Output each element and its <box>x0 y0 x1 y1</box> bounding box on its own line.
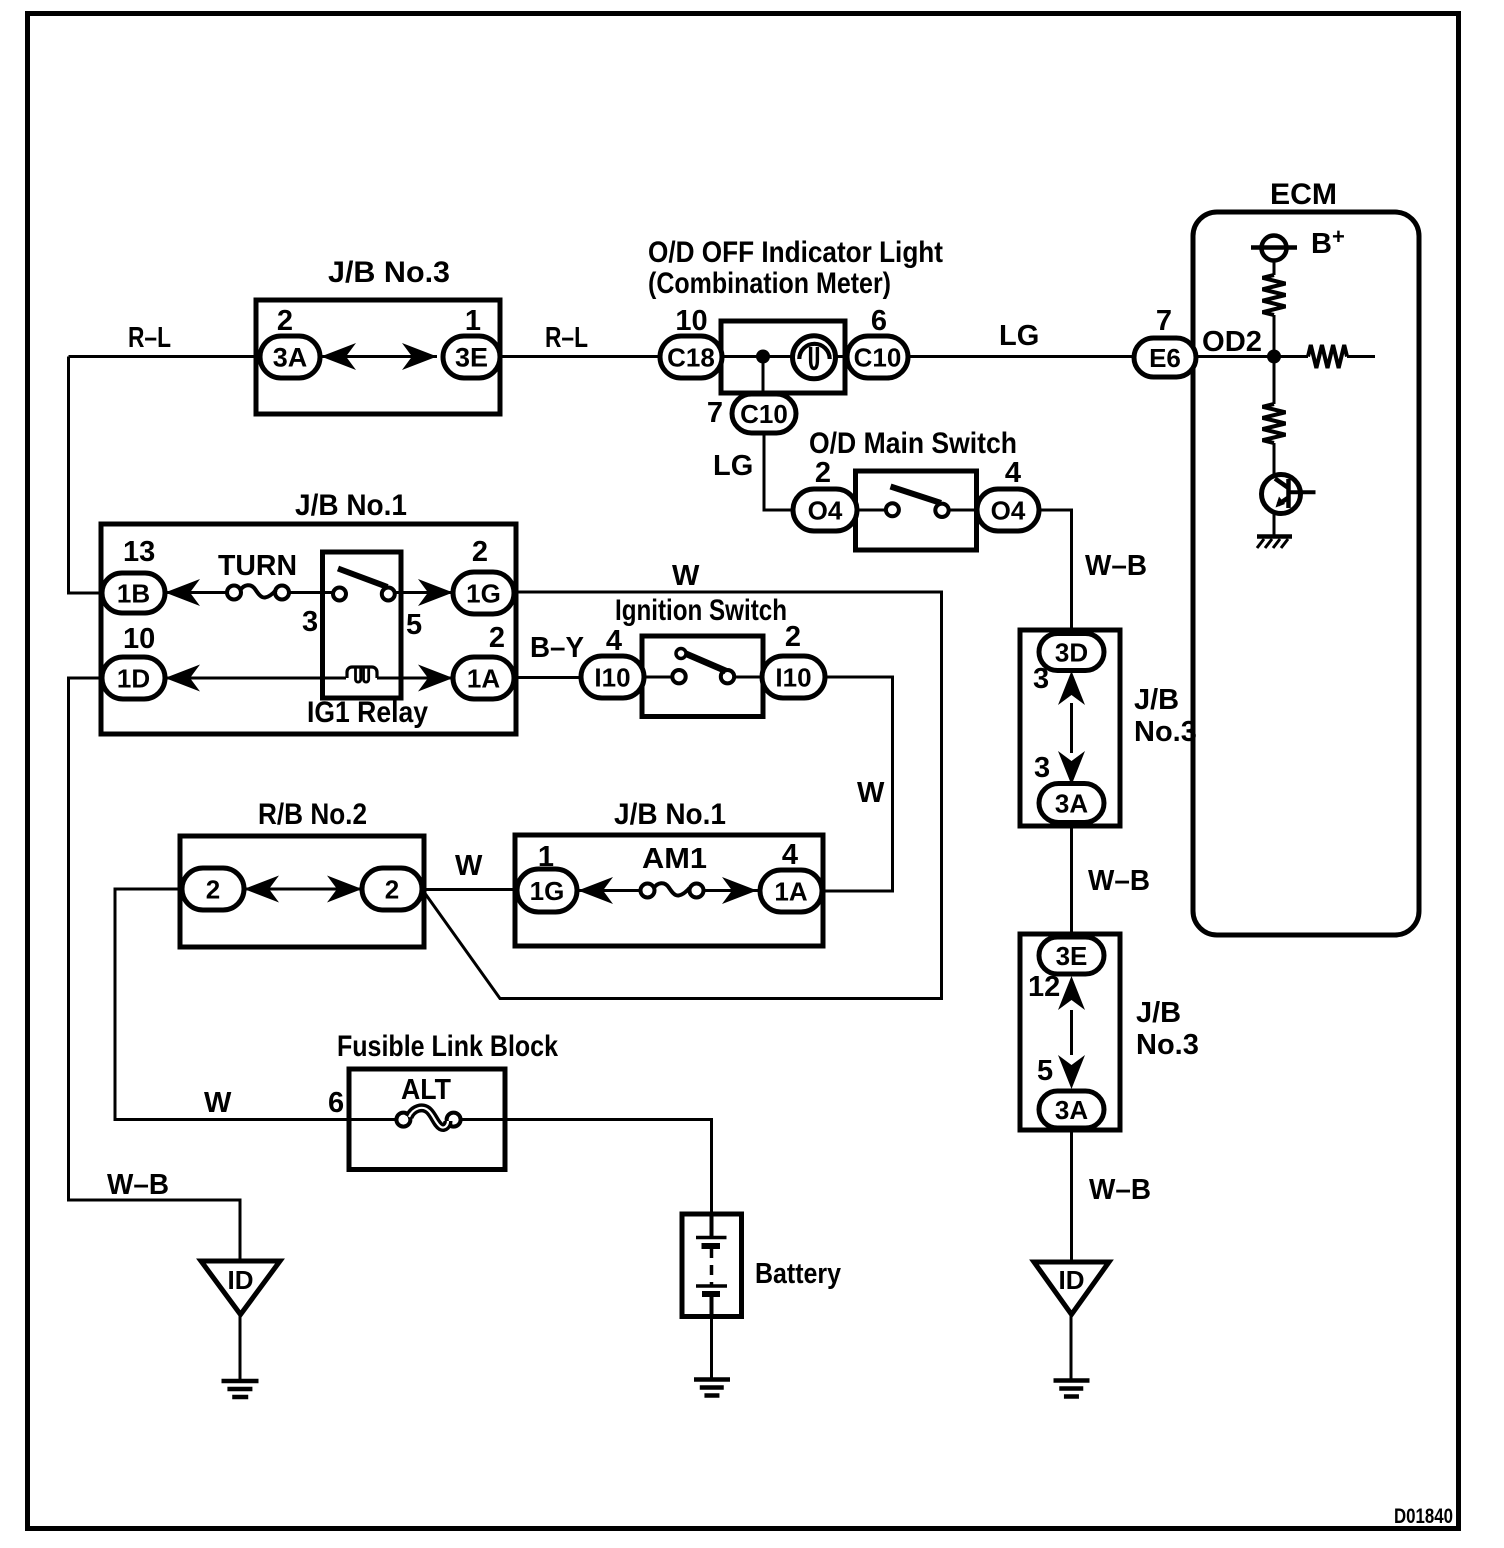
ignition switch contacts and lever <box>672 649 734 684</box>
connector I10 (pin 2) <box>762 656 825 698</box>
ECM block <box>1193 212 1419 935</box>
label LG (left) <box>713 450 753 482</box>
svg-text:4: 4 <box>1005 457 1021 489</box>
chassis ground (ECM) <box>1257 537 1292 549</box>
svg-text:2: 2 <box>815 457 831 489</box>
label W-B (upper right) <box>1085 550 1147 582</box>
svg-text:13: 13 <box>123 536 155 568</box>
label AM1 <box>642 843 707 875</box>
svg-text:Fusible Link Block: Fusible Link Block <box>337 1030 558 1063</box>
connector C10 (pin 7) <box>732 394 796 433</box>
connector 3A (upper vertical) <box>1039 784 1104 823</box>
wire R-L left segment <box>69 355 261 358</box>
wire relay to 1G <box>395 591 453 594</box>
wire battery to ground <box>710 1317 713 1379</box>
pin 4 of O4 <box>1005 457 1021 489</box>
wire W 2 to 1G <box>422 888 517 891</box>
pin 5 of 3A (lower) <box>1037 1055 1053 1087</box>
connector 3E (lower vertical) <box>1039 937 1104 974</box>
wire emitter to ground <box>1273 514 1276 537</box>
wire ALT link stub left <box>349 1118 397 1121</box>
wire between 3A and 3E <box>321 355 437 358</box>
ground (right ID) <box>1054 1381 1090 1397</box>
junction block J/B No.1 <box>101 524 516 734</box>
connector arrow at 1G (AM1) <box>578 877 613 904</box>
label O/D Main Switch <box>809 427 1017 460</box>
pin 3 of 3D <box>1033 663 1049 695</box>
wire O4 to switch contact <box>857 509 886 512</box>
B+ terminal <box>1251 236 1297 261</box>
connector arrow left (3A) <box>321 343 356 370</box>
connector 3A (lower vertical) <box>1039 1091 1104 1128</box>
svg-text:2: 2 <box>489 622 505 654</box>
label Fusible Link Block <box>337 1030 558 1063</box>
svg-text:ECM: ECM <box>1270 178 1337 211</box>
label J/B No.3 (top) <box>328 256 450 289</box>
svg-text:J/B No.3: J/B No.3 <box>328 256 450 289</box>
svg-text:6: 6 <box>871 305 887 337</box>
svg-text:I10: I10 <box>594 662 630 692</box>
label W-B (lower right) <box>1089 1174 1151 1206</box>
svg-text:5: 5 <box>1037 1055 1053 1087</box>
svg-text:1G: 1G <box>530 876 565 906</box>
connector 1D <box>102 657 165 699</box>
pin 2 of 1A <box>489 622 505 654</box>
wire W-B 3A to ID right <box>1070 1128 1073 1262</box>
connector 1A <box>453 657 514 699</box>
label OD2 <box>1202 326 1262 358</box>
label J/B No.1 (AM1 block) <box>614 798 726 831</box>
svg-text:7: 7 <box>707 397 723 429</box>
svg-text:Ignition Switch: Ignition Switch <box>615 594 787 627</box>
junction block J/B No.3 (upper vertical) <box>1020 630 1120 826</box>
label R-L (middle) <box>545 322 588 354</box>
svg-text:3A: 3A <box>1055 788 1088 818</box>
svg-text:3E: 3E <box>455 343 488 373</box>
connector arrow up (3D) <box>1058 671 1085 705</box>
connector O4 (pin 2) <box>793 489 857 531</box>
svg-text:10: 10 <box>675 305 707 337</box>
svg-text:ALT: ALT <box>401 1074 451 1106</box>
svg-text:10: 10 <box>123 623 155 655</box>
svg-text:1D: 1D <box>117 663 150 693</box>
wire left vertical R-L to 1B <box>69 357 103 594</box>
label IG1 Relay <box>307 696 428 729</box>
svg-text:J/B: J/B <box>1136 997 1181 1029</box>
pin 7 of C10 lower <box>707 397 723 429</box>
svg-text:1B: 1B <box>117 578 150 608</box>
label W (to ALT) <box>204 1087 232 1119</box>
pin 3 of 3A (upper) <box>1034 752 1050 784</box>
svg-text:6: 6 <box>328 1087 344 1119</box>
svg-text:4: 4 <box>606 625 622 657</box>
svg-text:2: 2 <box>785 621 801 653</box>
connector O4 (pin 4) <box>977 489 1039 531</box>
wire W-B from O4 <box>1039 510 1072 634</box>
pin 5 of relay <box>406 609 422 641</box>
pin 2 of I10 <box>785 621 801 653</box>
resistor R2 (series) <box>1308 345 1347 368</box>
svg-text:(Combination Meter): (Combination Meter) <box>648 267 891 300</box>
ground point ID (right) <box>1034 1262 1109 1315</box>
label W (mid right) <box>857 777 885 809</box>
wire R-L middle segment <box>500 355 660 358</box>
wire W-B 3A to 3E <box>1070 822 1073 937</box>
pin 6 of ALT <box>328 1087 344 1119</box>
svg-text:R–L: R–L <box>128 322 171 354</box>
svg-text:J/B No.1: J/B No.1 <box>614 798 726 831</box>
connector 1A (AM1 block) <box>760 870 822 912</box>
wire switch contact to O4 <box>948 509 977 512</box>
svg-text:Battery: Battery <box>755 1258 841 1290</box>
connector arrow at 1B <box>165 579 200 606</box>
label TURN <box>218 550 297 582</box>
label J/B No.3 (upper) line1 <box>1134 684 1179 716</box>
wire LG to ECM <box>908 355 1134 358</box>
svg-text:W: W <box>672 560 700 592</box>
label Battery <box>755 1258 841 1290</box>
connector 3D <box>1039 634 1104 671</box>
connector 1B <box>102 573 165 613</box>
connector arrow at 1A <box>418 665 453 692</box>
label J/B No.1 (relay block) <box>295 489 407 522</box>
connector 1G (AM1 block) <box>517 869 577 912</box>
IG1 relay switch contacts and lever <box>333 569 395 601</box>
svg-text:3D: 3D <box>1055 637 1088 667</box>
wire 1D to relay coil <box>165 677 346 680</box>
connector arrow up (3E) <box>1058 976 1085 1010</box>
svg-text:W–B: W–B <box>107 1169 169 1201</box>
wire 1G to AM1 fuse <box>577 889 646 892</box>
svg-text:2: 2 <box>472 536 488 568</box>
connector arrow down (3A lower) <box>1058 1055 1085 1089</box>
label W-B (bottom left) <box>107 1169 169 1201</box>
junction block J/B No.3 (top) <box>256 300 500 414</box>
IG1 relay coil <box>347 667 377 682</box>
connector I10 (pin 4) <box>581 656 644 698</box>
junction block J/B No.3 (lower vertical) <box>1020 934 1120 1130</box>
pin 10 of C18 <box>675 305 707 337</box>
svg-text:1G: 1G <box>466 578 501 608</box>
fuse AM1 <box>641 883 704 897</box>
connector 3A (J/B No.3 top) <box>260 336 320 378</box>
label R/B No.2 <box>258 798 367 831</box>
svg-text:4: 4 <box>782 839 798 871</box>
label J/B No.3 (lower) line1 <box>1136 997 1181 1029</box>
svg-text:5: 5 <box>406 609 422 641</box>
svg-text:No.3: No.3 <box>1136 1029 1199 1061</box>
connector 2 (left) <box>182 868 244 910</box>
wire B-Y 1A to I10 <box>514 676 581 679</box>
label O/D OFF Indicator Light line2 <box>648 267 891 300</box>
svg-text:R–L: R–L <box>545 322 588 354</box>
pin 2 of O4 <box>815 457 831 489</box>
wire W-B 1D down <box>69 678 241 1261</box>
svg-text:7: 7 <box>1156 305 1172 337</box>
battery box <box>682 1214 742 1317</box>
svg-text:OD2: OD2 <box>1202 326 1262 358</box>
wire C18 to bulb <box>722 355 847 358</box>
wire resistor to node <box>1273 315 1276 404</box>
svg-text:D01840: D01840 <box>1394 1505 1453 1528</box>
svg-text:3: 3 <box>1033 663 1049 695</box>
fusible link ALT <box>396 1108 460 1128</box>
svg-text:TURN: TURN <box>218 550 297 582</box>
svg-text:C10: C10 <box>854 342 902 372</box>
svg-text:B–Y: B–Y <box>530 632 584 664</box>
resistor R1 (pull-up) <box>1263 275 1286 315</box>
svg-text:W: W <box>204 1087 232 1119</box>
svg-text:O4: O4 <box>808 495 843 525</box>
svg-text:W–B: W–B <box>1088 865 1150 897</box>
wire TURN fuse to relay <box>283 591 334 594</box>
connector 2 (right) <box>362 868 422 910</box>
wire R2 stub <box>1347 355 1375 358</box>
label D01840 <box>1394 1505 1453 1528</box>
label B+ <box>1311 224 1345 260</box>
wire from 2 left down to ALT <box>115 889 349 1120</box>
label W-B (mid right) <box>1088 865 1150 897</box>
wire AM1 fuse to 1A <box>698 889 760 892</box>
wire W from 1G long <box>424 592 942 999</box>
svg-text:C18: C18 <box>667 342 715 372</box>
pin 12 of 3E <box>1028 971 1060 1003</box>
svg-text:2: 2 <box>385 874 399 904</box>
wire 2 to 2 inside R/B <box>244 888 362 891</box>
label ECM <box>1270 178 1337 211</box>
svg-text:O/D Main Switch: O/D Main Switch <box>809 427 1017 460</box>
IG1 relay box <box>323 552 402 698</box>
svg-text:ID: ID <box>228 1265 254 1295</box>
wire ignition contact to I10 <box>734 676 762 679</box>
svg-text:3A: 3A <box>273 343 308 373</box>
connector arrow at 1A (AM1) <box>722 877 757 904</box>
pin 1 of 1G <box>538 841 554 873</box>
label W (R/B to J/B) <box>455 850 483 882</box>
fuse TURN <box>227 585 289 599</box>
connector arrow right (3E) <box>402 343 437 370</box>
wire W from ignition down to 1A <box>822 677 893 891</box>
svg-text:J/B: J/B <box>1134 684 1179 716</box>
junction node in meter <box>756 350 770 364</box>
svg-text:1A: 1A <box>774 876 807 906</box>
svg-text:1A: 1A <box>467 663 500 693</box>
svg-text:ID: ID <box>1059 1265 1085 1295</box>
wire B+ to resistor <box>1273 261 1276 276</box>
wire LG down from C10 <box>764 433 793 510</box>
label Ignition Switch <box>615 594 787 627</box>
connector E6 <box>1134 338 1196 377</box>
connector arrow down (3A upper) <box>1058 751 1085 785</box>
pin 1 of 3E <box>465 305 481 337</box>
svg-text:LG: LG <box>713 450 753 482</box>
pin 2 of 3A <box>277 305 293 337</box>
svg-text:W: W <box>455 850 483 882</box>
pin 2 of 1G <box>472 536 488 568</box>
svg-text:O4: O4 <box>991 495 1026 525</box>
svg-text:3A: 3A <box>1055 1095 1088 1125</box>
connector 1G <box>453 572 514 614</box>
svg-text:3: 3 <box>1034 752 1050 784</box>
ignition switch box <box>642 636 763 717</box>
connector 3E (J/B No.3 top) <box>443 336 500 378</box>
pin 4 of I10 <box>606 625 622 657</box>
svg-text:C10: C10 <box>740 399 788 429</box>
wire between 3D and 3A <box>1070 703 1073 753</box>
svg-text:IG1 Relay: IG1 Relay <box>307 696 428 729</box>
relay block R/B No.2 <box>180 836 424 947</box>
connector C18 <box>660 336 722 378</box>
svg-text:2: 2 <box>277 305 293 337</box>
wire 1B to TURN fuse <box>165 591 231 594</box>
node OD2 junction <box>1267 350 1281 364</box>
connector arrow right (R/B 2) <box>327 876 362 903</box>
label W (ignition top) <box>672 560 700 592</box>
combination meter box <box>721 321 845 393</box>
ground (battery) <box>694 1380 730 1396</box>
svg-text:E6: E6 <box>1149 343 1181 373</box>
svg-text:12: 12 <box>1028 971 1060 1003</box>
label R-L (left) <box>128 322 171 354</box>
label LG (top) <box>999 320 1039 352</box>
svg-text:AM1: AM1 <box>642 843 707 875</box>
wire ALT to battery <box>505 1120 712 1216</box>
svg-text:3: 3 <box>302 606 318 638</box>
svg-text:W: W <box>857 777 885 809</box>
pin 13 of 1B <box>123 536 155 568</box>
O/D main switch contacts and lever <box>886 487 949 518</box>
pin 4 of 1A <box>782 839 798 871</box>
svg-text:1: 1 <box>465 305 481 337</box>
svg-text:W–B: W–B <box>1085 550 1147 582</box>
svg-text:No.3: No.3 <box>1134 716 1197 748</box>
label J/B No.3 (lower) line2 <box>1136 1029 1199 1061</box>
wire between 3E and 3A lower <box>1070 1010 1073 1055</box>
ground point ID (left) <box>201 1261 280 1315</box>
svg-text:I10: I10 <box>775 662 811 692</box>
connector arrow at 1G <box>418 579 453 606</box>
wire node to C10 lower <box>762 357 765 397</box>
svg-text:J/B No.1: J/B No.1 <box>295 489 407 522</box>
svg-text:W–B: W–B <box>1089 1174 1151 1206</box>
pin 7 of E6 <box>1156 305 1172 337</box>
connector arrow at 1D <box>165 665 200 692</box>
connector arrow left (R/B 2) <box>244 876 279 903</box>
wire relay coil to 1A <box>377 677 453 680</box>
transistor Q1 <box>1262 475 1316 514</box>
label J/B No.3 (upper) line2 <box>1134 716 1197 748</box>
O/D main switch box <box>856 471 977 550</box>
pin 3 of relay <box>302 606 318 638</box>
battery cell symbol <box>696 1216 727 1315</box>
svg-text:R/B No.2: R/B No.2 <box>258 798 367 831</box>
svg-text:3E: 3E <box>1056 941 1088 971</box>
indicator bulb <box>793 336 836 379</box>
junction block J/B No.1 AM1 <box>515 835 823 946</box>
wire ID right to ground <box>1070 1315 1073 1380</box>
wire ID left to ground <box>239 1315 242 1380</box>
ground (left ID) <box>222 1381 259 1397</box>
pin 6 of C10 <box>871 305 887 337</box>
connector C10 (pin 6) <box>847 336 908 378</box>
wire resistor to transistor <box>1273 443 1276 475</box>
svg-text:LG: LG <box>999 320 1039 352</box>
wire E6 to node <box>1196 355 1308 358</box>
label O/D OFF Indicator Light line1 <box>648 236 943 269</box>
svg-text:O/D OFF Indicator Light: O/D OFF Indicator Light <box>648 236 943 269</box>
label B-Y <box>530 632 584 664</box>
pin 10 of 1D <box>123 623 155 655</box>
label ALT <box>401 1074 451 1106</box>
resistor R3 (lower) <box>1263 404 1286 443</box>
wire I10 to ignition contact <box>644 676 672 679</box>
fusible link block box <box>349 1069 505 1170</box>
wire ALT link stub right <box>460 1118 505 1121</box>
svg-text:2: 2 <box>206 874 220 904</box>
